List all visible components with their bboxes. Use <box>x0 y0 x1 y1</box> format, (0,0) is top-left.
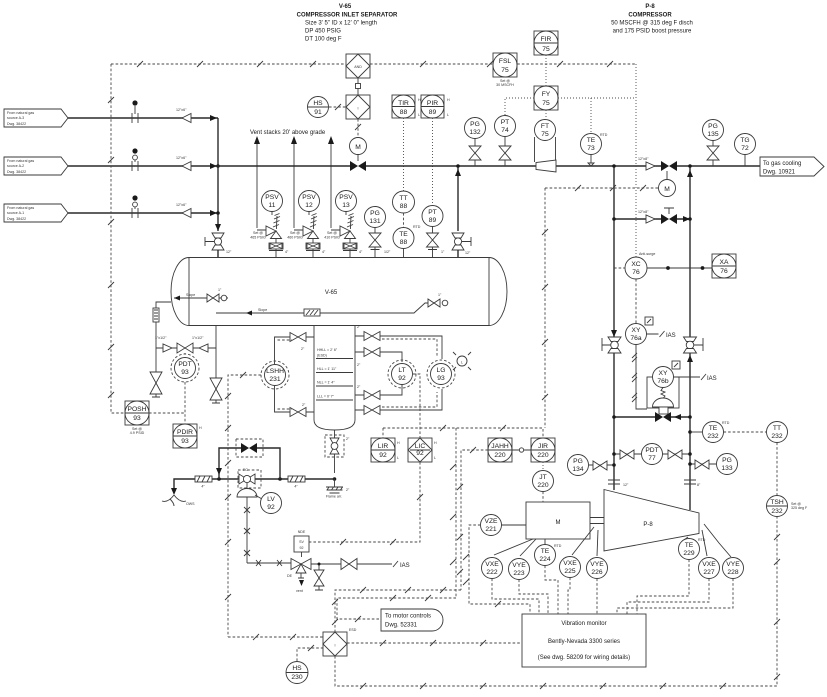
svg-text:77: 77 <box>648 455 656 462</box>
internal 1" valve right <box>428 293 448 307</box>
svg-text:220: 220 <box>537 452 548 459</box>
compressor P-8 body <box>604 490 699 552</box>
svg-text:76: 76 <box>720 268 728 275</box>
svg-text:FT: FT <box>541 123 549 130</box>
svg-text:XY: XY <box>632 327 641 334</box>
wire interlock to monitor dashed <box>347 640 522 646</box>
reducer 12"x8" discharge <box>638 157 655 170</box>
wire compressor suction drop x=613 <box>611 164 617 490</box>
sample point on line A-1 <box>132 195 138 218</box>
svg-text:PG: PG <box>370 210 380 217</box>
svg-text:460 PSIG: 460 PSIG <box>287 236 303 240</box>
wire ESD dotted drop x=636 to anti-surge controller <box>635 64 637 257</box>
svg-text:74: 74 <box>501 127 509 134</box>
valve IAS isolation <box>311 559 410 570</box>
svg-text:1"x1/2": 1"x1/2" <box>155 336 167 340</box>
control valve LV 92 with diaphragm actuator <box>237 468 262 499</box>
svg-text:JAHH: JAHH <box>491 443 509 450</box>
valve vent bleed below IAS line <box>314 564 324 590</box>
instrument PT 74 with root valve <box>495 116 516 167</box>
wire LT to level instruments dashed drop x=420 <box>413 374 420 438</box>
svg-text:Anti-surge: Anti-surge <box>639 252 655 256</box>
instrument PT 89 with 1" root valve <box>422 206 445 259</box>
relief valve PSV 12 <box>287 191 326 259</box>
svg-text:M: M <box>664 186 670 193</box>
wire pipe from source A-2 joining main suction header <box>68 163 218 169</box>
svg-text:92: 92 <box>300 546 304 550</box>
svg-text:(See dwg. 58209 for wiring det: (See dwg. 58209 for wiring details) <box>538 655 630 661</box>
svg-text:Slope: Slope <box>186 293 195 297</box>
svg-text:H: H <box>397 441 400 445</box>
switch HS 230 hand switch <box>286 645 323 684</box>
svg-text:L: L <box>397 456 399 460</box>
svg-text:Set @: Set @ <box>253 231 263 235</box>
svg-text:V-65: V-65 <box>339 4 352 10</box>
wire bridle from vessel bottom x=216 <box>215 325 217 341</box>
svg-text:To gas cooling: To gas cooling <box>763 161 801 167</box>
svg-text:VXE: VXE <box>702 561 716 568</box>
controller LIC 92 <box>408 438 437 462</box>
relief valve PSV 13 <box>324 191 363 259</box>
svg-text:and 175 PSID boost pressure: and 175 PSID boost pressure <box>613 29 692 35</box>
svg-text:223: 223 <box>513 570 524 577</box>
svg-text:220: 220 <box>537 482 548 489</box>
wire VYE 226 dashed to monitor <box>596 579 598 615</box>
instrument TE 229 compressor bearing <box>679 537 706 560</box>
svg-text:91: 91 <box>314 109 322 116</box>
wire POSH to PDT loop dashed <box>149 412 185 414</box>
wire pneumatic XY76a to recycle valve actuator <box>632 345 647 410</box>
svg-text:source A-2: source A-2 <box>7 164 24 168</box>
valve 12" vessel inlet block valve <box>205 233 232 258</box>
instrument TE 232 on discharge <box>688 421 730 443</box>
vessel boot / level chamber <box>314 325 355 430</box>
svg-text:PDT: PDT <box>178 361 191 368</box>
svg-text:XA: XA <box>720 259 729 266</box>
positioner frame for recycle valve <box>647 377 679 408</box>
valve 3-way IAS solenoid vent <box>247 559 311 594</box>
svg-text:TE: TE <box>399 231 408 238</box>
svg-text:Dwg. 38422: Dwg. 38422 <box>7 122 26 126</box>
controller XC 76 anti-surge <box>614 252 655 279</box>
svg-text:V-65: V-65 <box>325 290 338 296</box>
wire TE 232 to TT 232 dashed <box>724 431 767 433</box>
svg-text:PSV: PSV <box>339 194 353 201</box>
wire main suction/discharge header y=166 <box>214 165 760 167</box>
svg-text:135: 135 <box>707 131 718 138</box>
svg-text:TE: TE <box>587 137 596 144</box>
instrument JT 220 speed transmitter <box>533 471 554 503</box>
svg-text:H: H <box>434 441 437 445</box>
valve startup bypass globe (closed, solid) <box>661 208 677 224</box>
svg-text:132: 132 <box>469 129 480 136</box>
svg-text:PG: PG <box>470 121 480 128</box>
logic gate AND <box>346 54 370 78</box>
valve drain angle right bridle <box>210 348 222 403</box>
valve 2" boot tap lower-right pair <box>355 363 442 415</box>
valve 2" boot bottom drain ball valve in dashed box <box>325 430 350 473</box>
svg-text:226: 226 <box>591 569 602 576</box>
sample point on line A-2 <box>132 148 138 171</box>
valve ESD suction shutoff (gate, closed shown solid) <box>350 161 366 171</box>
flange break 12" suction <box>608 480 629 487</box>
spec break left on drain line <box>195 476 212 489</box>
svg-text:88: 88 <box>400 239 408 246</box>
shaft coupling motor to compressor <box>590 518 604 524</box>
instrument PG 133 with root valve <box>688 454 737 475</box>
wire FY to anti-surge dotted with TE 73 branch <box>558 98 636 133</box>
svg-text:Dwg. 38422: Dwg. 38422 <box>7 217 26 221</box>
svg-text:12: 12 <box>305 202 313 209</box>
svg-text:75: 75 <box>542 100 550 107</box>
level mark HLL <box>316 367 353 373</box>
instrument FT 75 with impulse leads <box>535 120 556 163</box>
svg-text:M: M <box>355 144 361 151</box>
svg-text:12": 12" <box>465 251 471 255</box>
svg-text:TSH: TSH <box>770 499 784 506</box>
svg-text:LG: LG <box>437 367 446 374</box>
svg-text:230: 230 <box>291 674 302 681</box>
sample point on line A-3 <box>132 100 138 123</box>
shared display JIR 220 <box>531 438 555 462</box>
actuator diaphragm on recycle valve <box>653 388 674 415</box>
wire VYE 228 dashed to monitor <box>617 579 733 615</box>
wire left bridle from vessel head <box>156 302 171 341</box>
wire XC to XY76a dashed <box>635 279 637 323</box>
shared display JAHH 220 <box>488 438 512 462</box>
wire LSHH ESD dashed to left header <box>225 372 261 637</box>
svg-text:From natural gas: From natural gas <box>7 159 34 163</box>
svg-text:RTD: RTD <box>722 421 730 425</box>
valve 2" boot tap lower-left to LSHH <box>275 386 315 417</box>
svg-text:HS: HS <box>292 665 302 672</box>
svg-text:FSL: FSL <box>499 58 512 65</box>
svg-text:134: 134 <box>572 466 583 473</box>
level mark HHLL <box>316 348 353 359</box>
wire TE 224 dashed to monitor <box>545 566 558 615</box>
svg-text:vent: vent <box>296 589 303 593</box>
flag From natural gas source A-3 <box>4 109 68 127</box>
svg-text:75: 75 <box>541 131 549 138</box>
note vent stacks <box>250 130 326 136</box>
svg-text:1/2": 1/2" <box>384 250 391 254</box>
wire FY to PT 74 dotted <box>505 98 534 115</box>
svg-text:FY: FY <box>542 91 551 98</box>
svg-text:L: L <box>418 113 420 117</box>
lamp L for gauge glass <box>453 352 471 370</box>
spec break right on drain line <box>288 476 305 489</box>
wire ESD dashed riser x=545 from discharge valve circuit <box>542 188 548 428</box>
svg-text:222: 222 <box>486 569 497 576</box>
instrument HS 91 hand switch <box>308 97 329 118</box>
svg-text:H: H <box>447 98 450 102</box>
svg-text:source A-1: source A-1 <box>7 211 24 215</box>
solenoid XY 76a <box>626 317 676 345</box>
wire FY to FT dotted <box>545 110 547 119</box>
level mark LLL <box>316 395 353 401</box>
svg-text:75: 75 <box>542 46 550 53</box>
seal pot on left bridle <box>153 308 159 322</box>
svg-text:VXE: VXE <box>485 561 499 568</box>
wire HS 91 to interlock dashed <box>329 104 346 110</box>
svg-text:1"x1/2": 1"x1/2" <box>192 336 204 340</box>
svg-text:OWS: OWS <box>186 502 195 506</box>
svg-text:229: 229 <box>683 550 694 557</box>
svg-text:IAS: IAS <box>666 333 676 339</box>
wire ESD dashed signal vertical left side x=111 <box>108 64 125 413</box>
svg-text:PSV: PSV <box>265 194 279 201</box>
wire TE 229 dashed to monitor <box>637 560 689 615</box>
flame arrestor drain outlet 2" <box>326 477 350 498</box>
instrument PG 134 with root valve <box>568 455 616 476</box>
instrument TT 232 <box>767 422 788 443</box>
valve ball discharge isolation <box>684 337 704 353</box>
svg-text:12": 12" <box>623 483 629 487</box>
svg-text:PDIR: PDIR <box>177 429 193 436</box>
svg-text:VXE: VXE <box>563 560 577 567</box>
motor operator M for suction ESD valve <box>350 138 367 162</box>
vibration probe VZE 221 <box>481 515 527 536</box>
svg-text:Dwg. 38422: Dwg. 38422 <box>7 170 26 174</box>
svg-text:LLL = 0' 7": LLL = 0' 7" <box>317 395 335 399</box>
svg-text:221: 221 <box>485 526 496 533</box>
svg-text:Slope: Slope <box>258 308 267 312</box>
wire JT to JIR dotted <box>542 462 544 471</box>
drain to OWS symbol <box>162 495 195 506</box>
svg-text:88: 88 <box>400 109 408 116</box>
vibration probe VYE 228 <box>704 524 744 579</box>
instrument PDT 93 <box>171 353 199 382</box>
wire ESD perimeter dashed bottom <box>335 517 780 690</box>
svg-text:225: 225 <box>564 568 575 575</box>
svg-text:12"x6": 12"x6" <box>176 108 187 112</box>
wire LIC to SV dashed <box>309 462 423 545</box>
svg-text:133: 133 <box>721 465 732 472</box>
svg-text:DE: DE <box>287 574 293 578</box>
svg-text:IAS: IAS <box>400 563 410 569</box>
internal drain header with slope arrow and vortex breaker <box>216 303 428 316</box>
svg-text:PIR: PIR <box>427 100 438 107</box>
wire pneumatic supply LV to solenoid <box>244 497 250 563</box>
wire ESD dashed riser to interlock <box>332 587 461 632</box>
svg-text:Set @: Set @ <box>290 231 300 235</box>
instrument PDT 77 with block valves <box>612 444 692 465</box>
interlock I top <box>346 95 370 119</box>
wire ESD dashed to discharge valve motor <box>545 185 658 191</box>
svg-text:VYE: VYE <box>590 561 604 568</box>
svg-text:TT: TT <box>399 195 407 202</box>
svg-text:Dwg. 10921: Dwg. 10921 <box>763 170 796 176</box>
valve discharge ESD shutoff (closed, solid) with motor operator M <box>659 161 678 197</box>
svg-text:PT: PT <box>428 209 437 216</box>
valve bypass globe (closed, solid) in dashed box <box>236 439 263 457</box>
svg-text:LSHH: LSHH <box>266 368 284 375</box>
level mark NLL <box>316 381 353 387</box>
wire VXE 222 dashed to monitor <box>492 579 539 615</box>
wire vent stack for PSV 12 <box>291 136 297 228</box>
svg-text:93: 93 <box>133 415 141 422</box>
svg-text:12"x6": 12"x6" <box>176 203 187 207</box>
wire PT 89 to PIR 89 dotted <box>432 118 434 205</box>
wire ESD dashed riser to motor controls <box>337 595 456 622</box>
svg-text:COMPRESSOR: COMPRESSOR <box>628 13 672 19</box>
svg-text:12"x6": 12"x6" <box>176 156 187 160</box>
instrument TE 224 motor winding <box>535 539 562 566</box>
internal slope line left with 1" valve <box>174 288 228 302</box>
flow element venturi on main line <box>536 160 556 172</box>
shared display FY 75 <box>534 86 558 110</box>
svg-text:PSV: PSV <box>302 194 316 201</box>
svg-text:89: 89 <box>429 109 437 116</box>
svg-text:TE: TE <box>709 425 718 432</box>
svg-text:PG: PG <box>722 457 732 464</box>
svg-text:To motor controls: To motor controls <box>385 614 431 620</box>
svg-text:92: 92 <box>267 504 275 511</box>
relief valve PSV 11 <box>250 191 289 259</box>
svg-text:XY: XY <box>659 370 668 377</box>
wire ESD dashed from LV area down to interlock <box>228 634 323 640</box>
instrument PG 131 with 1/2" root valve <box>365 207 391 259</box>
wire LV bypass loop <box>216 448 280 479</box>
svg-text:228: 228 <box>727 569 738 576</box>
instrument PG 135 with root valve <box>703 120 724 167</box>
wire ESD dashed signal horizontal y=64 with slashes <box>111 61 636 67</box>
svg-text:72: 72 <box>741 145 749 152</box>
instrument LSHH 231 <box>261 340 292 409</box>
instrument TT 88 <box>393 191 415 213</box>
svg-text:L: L <box>461 361 463 365</box>
svg-text:4.9 PSID: 4.9 PSID <box>130 431 145 435</box>
reducer 12"x6" on line A-2 <box>176 156 191 171</box>
svg-text:Flame arr.: Flame arr. <box>326 495 342 499</box>
svg-text:76a: 76a <box>630 335 641 342</box>
svg-text:P-8: P-8 <box>645 4 655 10</box>
svg-text:source A-3: source A-3 <box>7 116 24 120</box>
wire vessel outlet riser x=457 <box>455 164 461 231</box>
svg-text:P-8: P-8 <box>643 522 653 528</box>
svg-text:LIR: LIR <box>378 443 389 450</box>
svg-text:VZE: VZE <box>484 518 498 525</box>
wire TT to TSH dashed <box>776 443 778 496</box>
valve ball suction isolation <box>602 337 621 353</box>
svg-text:220: 220 <box>494 452 505 459</box>
svg-text:IAS: IAS <box>707 376 717 382</box>
vibration probe VYE 226 <box>587 530 608 579</box>
motor M driver <box>526 502 590 539</box>
shared display LIR 92 <box>371 438 400 462</box>
flag To gas cooling <box>760 157 824 176</box>
wire condensate drain line y=479 <box>171 477 335 495</box>
svg-text:11: 11 <box>269 202 276 209</box>
instrument TE 88 on vessel nozzle <box>393 213 421 258</box>
valve 12" vessel outlet block valve <box>452 233 471 258</box>
svg-text:VYE: VYE <box>512 562 526 569</box>
instrument LV 92 tag <box>261 493 282 514</box>
wire level signal dashed y=428 collector <box>383 425 543 438</box>
svg-text:HLL = 1' 11": HLL = 1' 11" <box>317 367 337 371</box>
valve anti-surge recycle (closed, solid) <box>612 412 692 422</box>
svg-text:92: 92 <box>379 452 387 459</box>
svg-text:FC: FC <box>243 468 248 472</box>
wire interlock to motor operator dashed <box>355 119 361 137</box>
svg-text:Set @: Set @ <box>327 231 337 235</box>
svg-text:DT 100 deg F: DT 100 deg F <box>305 37 342 43</box>
svg-text:LV: LV <box>267 496 275 503</box>
flag From natural gas source A-2 <box>4 157 68 175</box>
title V-65 vessel heading <box>297 4 398 43</box>
wire FIR to FY dotted <box>545 55 547 86</box>
instrument PG 132 with root valve <box>465 118 486 167</box>
svg-text:L: L <box>447 113 449 117</box>
svg-text:30 MSCFH: 30 MSCFH <box>496 83 514 87</box>
shared display PIR 89 <box>421 95 450 118</box>
svg-text:LIC: LIC <box>415 443 426 450</box>
svg-text:RTD: RTD <box>600 133 608 137</box>
valve manifold 1"x1/2" with PDT taps <box>155 336 216 353</box>
svg-text:88: 88 <box>400 203 408 210</box>
svg-text:L: L <box>434 456 436 460</box>
svg-text:DP 450 PSIG: DP 450 PSIG <box>305 29 341 35</box>
svg-text:TG: TG <box>740 137 749 144</box>
valve 2" boot tap upper-left to LSHH <box>275 333 315 365</box>
svg-text:73: 73 <box>587 145 595 152</box>
wire pipe from source A-1 <box>68 210 218 216</box>
svg-text:PDT: PDT <box>645 447 658 454</box>
flange break 8" discharge <box>684 480 701 487</box>
flag From natural gas source A-1 <box>4 204 68 222</box>
wire TT 88 to TIR 88 dotted <box>403 118 405 191</box>
svg-text:I: I <box>335 644 336 648</box>
instrument TG 72 <box>735 134 756 167</box>
svg-text:93: 93 <box>181 438 189 445</box>
shared display FSL 75 on ESD line <box>493 53 517 87</box>
vessel V-65 separator shell <box>171 258 507 326</box>
svg-text:75: 75 <box>501 67 509 74</box>
svg-text:92: 92 <box>398 375 406 382</box>
alarm XA 76 <box>712 254 736 278</box>
wire vent stack for PSV 13 <box>328 136 334 228</box>
svg-text:VYE: VYE <box>726 561 740 568</box>
wire vertical header x=214 collecting sources down to vessel inlet <box>215 118 221 231</box>
wire startup bypass line y=219 <box>612 210 692 223</box>
wire VXE 227 dashed to monitor <box>627 579 709 615</box>
reducer 12"x6" on line A-1 <box>176 203 191 218</box>
wire AND to I connector with square tag <box>356 78 361 95</box>
svg-text:(ESD): (ESD) <box>317 354 327 358</box>
svg-text:PG: PG <box>573 458 583 465</box>
svg-text:232: 232 <box>771 433 782 440</box>
wire XC to XA alarm line <box>647 266 713 270</box>
svg-text:COMPRESSOR INLET SEPARATOR: COMPRESSOR INLET SEPARATOR <box>297 13 398 19</box>
svg-text:I: I <box>358 107 359 111</box>
vibration probe VYE 223 <box>509 539 537 580</box>
svg-text:Vibration monitor: Vibration monitor <box>561 621 606 627</box>
svg-text:13: 13 <box>342 202 350 209</box>
svg-text:TE: TE <box>685 542 694 549</box>
valve 2" boot tap upper-right pair <box>355 325 442 362</box>
wire JAHH ESD dashed to left risers <box>450 428 488 598</box>
svg-text:Dwg. 52331: Dwg. 52331 <box>385 623 418 629</box>
svg-text:M: M <box>556 520 561 526</box>
svg-text:ESD: ESD <box>349 628 357 632</box>
svg-text:NDE: NDE <box>298 530 306 534</box>
shared display PDIR 93 <box>173 424 202 448</box>
svg-text:XC: XC <box>631 261 640 268</box>
svg-text:HHLL = 2' 6": HHLL = 2' 6" <box>317 348 338 352</box>
svg-text:227: 227 <box>703 569 714 576</box>
svg-text:POSH: POSH <box>128 406 147 413</box>
svg-text:H: H <box>199 426 202 430</box>
